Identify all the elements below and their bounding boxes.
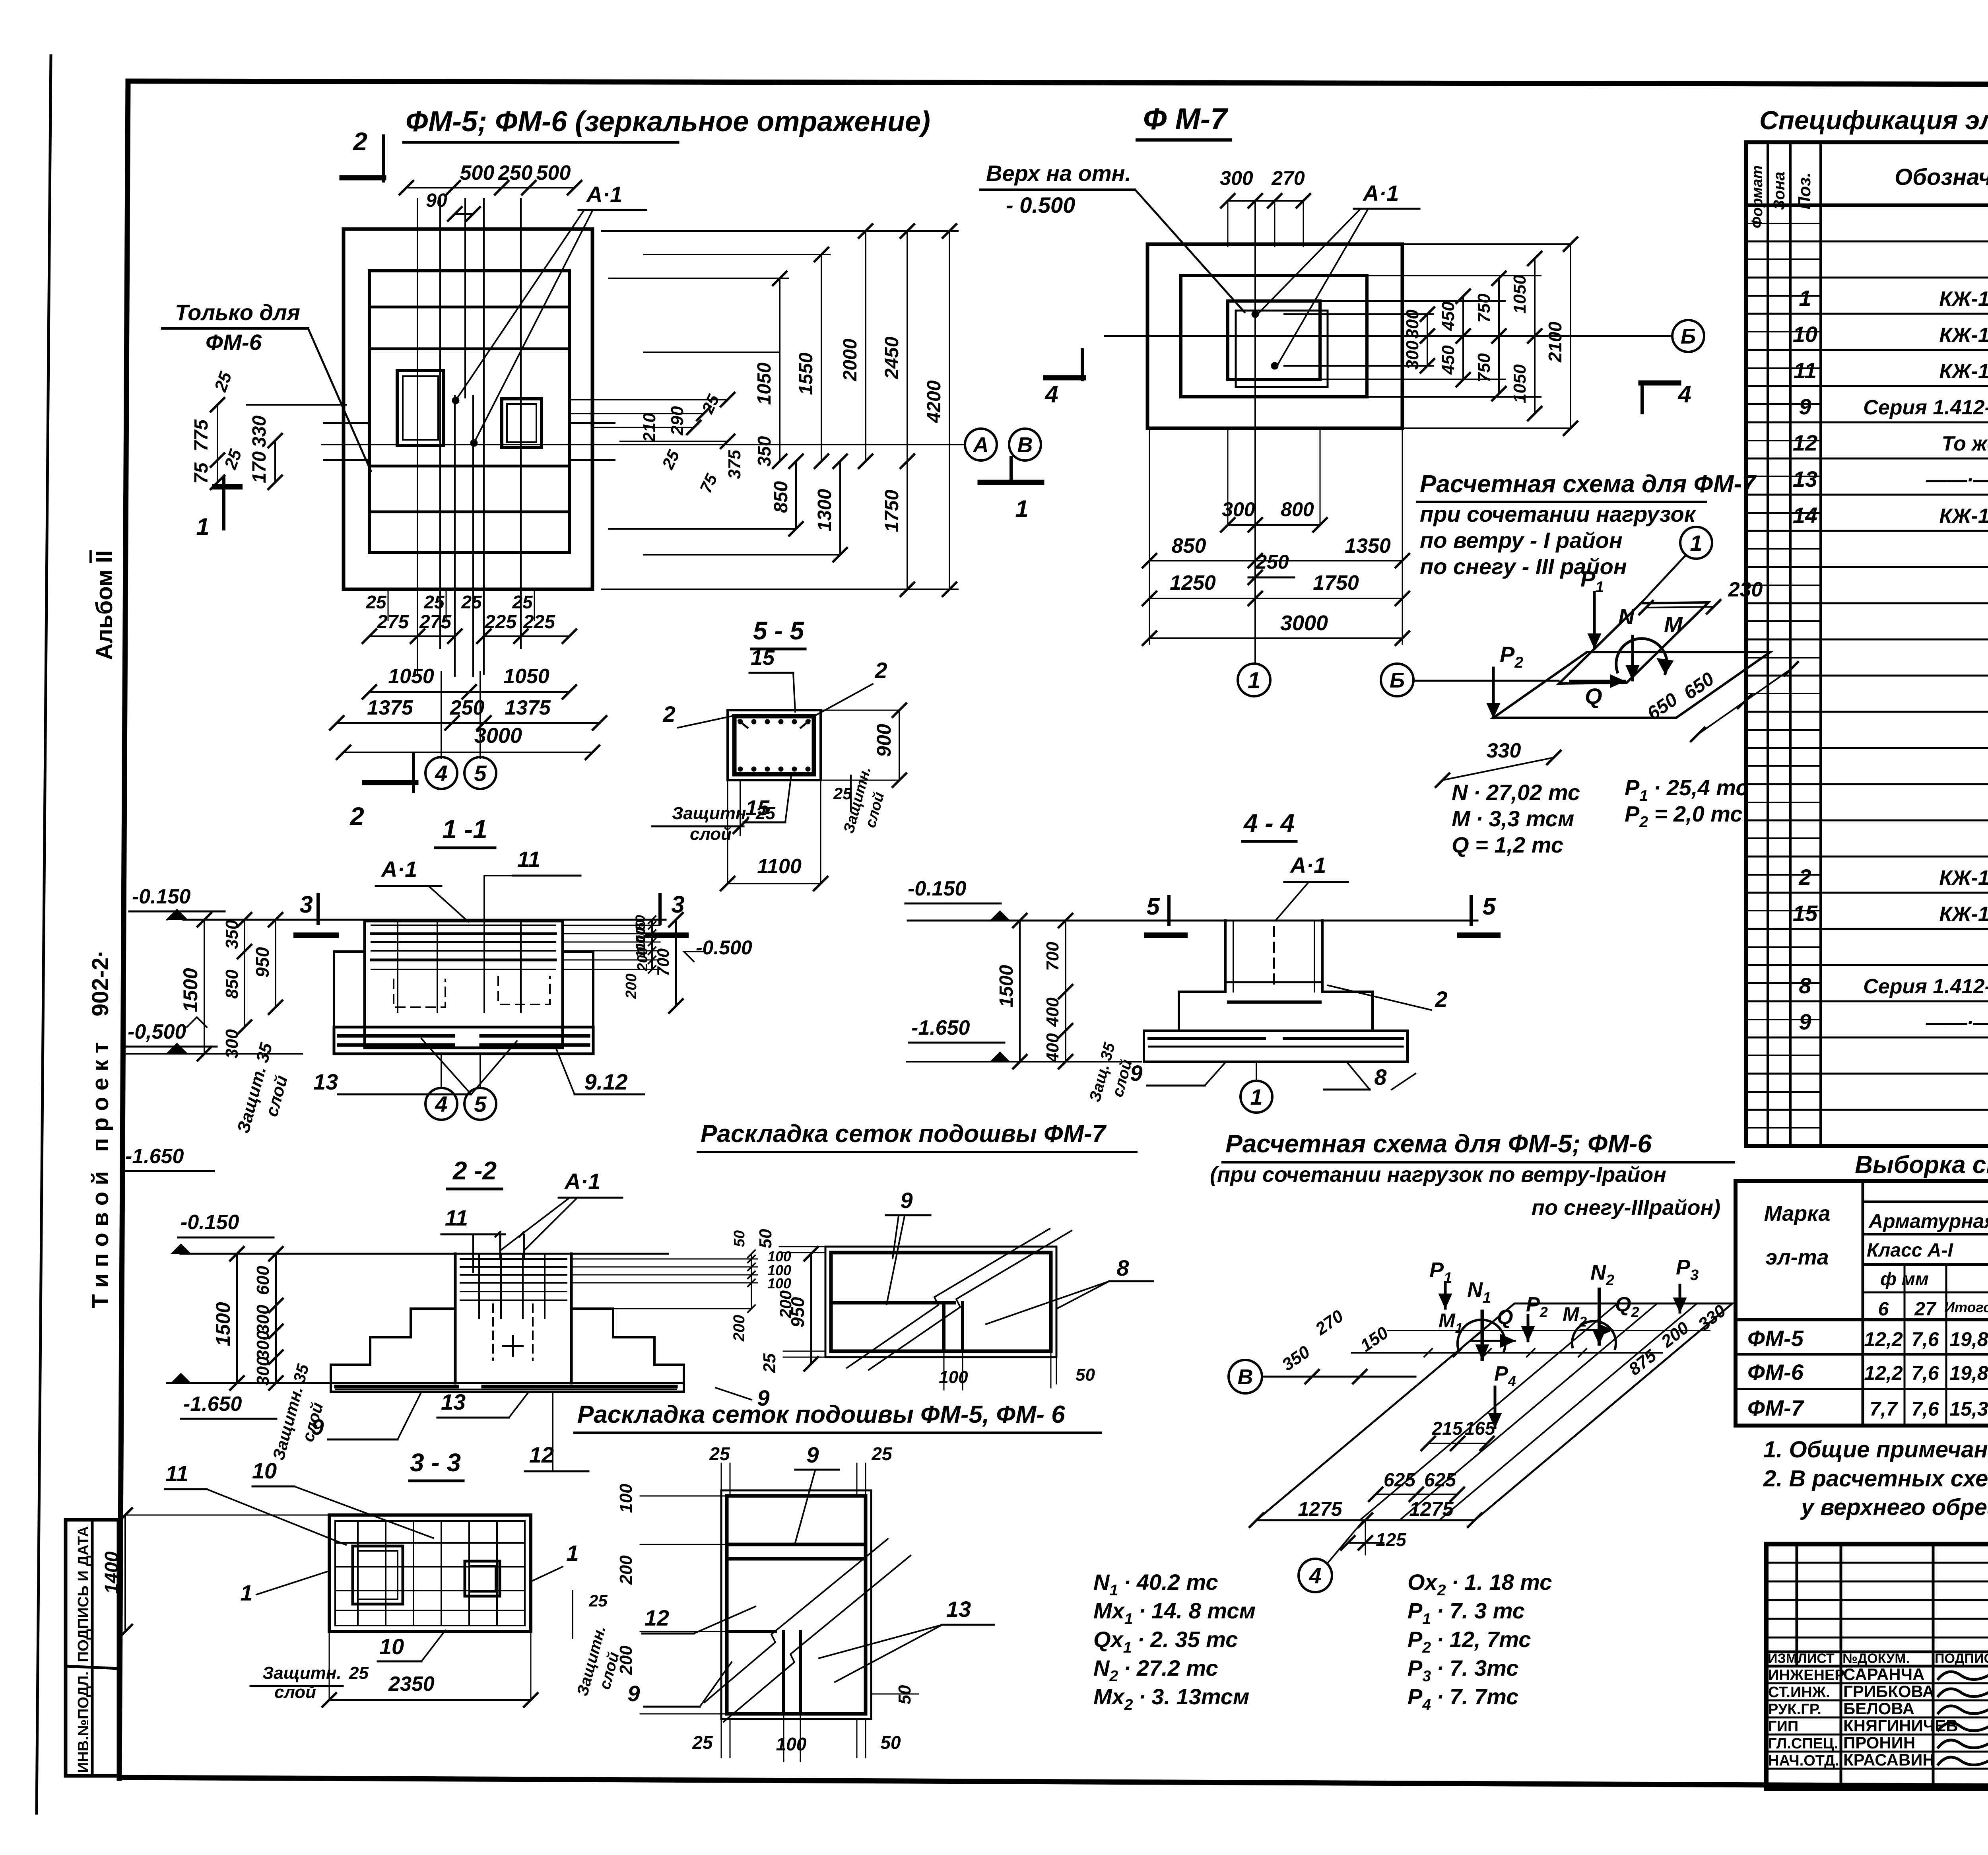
svg-text:САРАНЧА: САРАНЧА xyxy=(1843,1665,1924,1684)
svg-text:10: 10 xyxy=(1793,322,1817,347)
svg-text:1050: 1050 xyxy=(754,362,775,405)
svg-text:-1.650: -1.650 xyxy=(183,1393,242,1416)
svg-text:3: 3 xyxy=(671,891,684,918)
svg-text:14: 14 xyxy=(1793,503,1817,528)
svg-text:200: 200 xyxy=(623,973,640,999)
svg-text:13: 13 xyxy=(313,1069,338,1094)
svg-text:при сочетании нагрузок: при сочетании нагрузок xyxy=(1420,501,1697,526)
svg-text:9: 9 xyxy=(1799,394,1811,419)
label A-1 with leaders xyxy=(452,182,646,447)
svg-text:7,6: 7,6 xyxy=(1911,1328,1939,1350)
svg-text:ФМ-5; ФМ-6 (зеркальное отражен: ФМ-5; ФМ-6 (зеркальное отражение) xyxy=(406,106,930,138)
title raschetnaya shema dlya FM-7 xyxy=(1417,470,1757,579)
svg-text:5: 5 xyxy=(1146,893,1160,920)
svg-text:ПОДПИСЬ И ДАТА: ПОДПИСЬ И ДАТА xyxy=(75,1526,92,1662)
svg-text:-0,500: -0,500 xyxy=(128,1020,186,1043)
svg-text:5: 5 xyxy=(1482,893,1496,920)
svg-text:КЖ-13: КЖ-13 xyxy=(1939,324,1988,347)
section marks 3 xyxy=(296,891,686,935)
svg-text:1100: 1100 xyxy=(757,855,802,878)
svg-text:15: 15 xyxy=(1793,901,1818,926)
section 5-5 title xyxy=(751,616,805,649)
svg-text:Qх1 ∙ 2. 35 тс: Qх1 ∙ 2. 35 тс xyxy=(1093,1627,1238,1656)
section 1-1 left dims xyxy=(122,885,302,1171)
svg-text:13: 13 xyxy=(1793,466,1817,491)
svg-text:3 - 3: 3 - 3 xyxy=(410,1448,461,1477)
schema FM-5/6 base plate parallelogram xyxy=(1256,1303,1732,1520)
section 1-1 grid circles 4 5 xyxy=(425,1054,496,1120)
svg-text:900: 900 xyxy=(873,724,895,757)
section 2-2 title xyxy=(447,1156,502,1189)
svg-text:4: 4 xyxy=(1044,381,1058,408)
svg-text:Мх2 ∙ 3. 13тсм: Мх2 ∙ 3. 13тсм xyxy=(1093,1684,1249,1713)
svg-text:1: 1 xyxy=(1015,495,1028,522)
svg-text:100: 100 xyxy=(767,1275,791,1292)
title raskladka setok FM-7 xyxy=(698,1120,1136,1152)
schema FM-5/6 upper dim lines xyxy=(1305,1331,1710,1383)
svg-text:1: 1 xyxy=(1690,530,1702,556)
svg-text:800: 800 xyxy=(1281,498,1314,521)
lower-left stamp box xyxy=(66,1520,118,1776)
section 5-5 column square xyxy=(728,710,821,780)
section 3-3 labels xyxy=(165,1458,579,1661)
svg-text:3: 3 xyxy=(299,891,313,918)
svg-text:Верх на отн.: Верх на отн. xyxy=(986,161,1131,186)
section 1-1 foundation body xyxy=(334,921,593,1054)
svg-text:Ох2 ∙ 1. 18 тс: Ох2 ∙ 1. 18 тс xyxy=(1408,1569,1552,1599)
svg-text:11: 11 xyxy=(445,1205,468,1230)
svg-text:КЖ-13: КЖ-13 xyxy=(1939,903,1988,926)
svg-text:1: 1 xyxy=(566,1540,579,1566)
mesh FM-7 rectangle xyxy=(825,1247,1056,1357)
svg-text:600: 600 xyxy=(253,1266,273,1295)
svg-text:- 0.500: - 0.500 xyxy=(1006,192,1075,218)
title FM-7 xyxy=(1137,102,1231,140)
svg-text:Класс А-I: Класс А-I xyxy=(1867,1240,1953,1261)
svg-text:2350: 2350 xyxy=(388,1672,435,1696)
svg-text:350: 350 xyxy=(222,920,242,949)
section 2-2 stepped foundation outline xyxy=(331,1254,684,1392)
svg-text:275: 275 xyxy=(377,612,409,633)
section 4-4 slab mesh bars xyxy=(1149,1039,1403,1047)
svg-text:11: 11 xyxy=(1794,358,1817,383)
svg-text:-0.150: -0.150 xyxy=(181,1211,239,1234)
svg-text:Спецификация элементов монолит: Спецификация элементов монолитной констр… xyxy=(1759,105,1988,135)
svg-text:-1.650: -1.650 xyxy=(125,1145,184,1168)
plan FM-7 column rectangle xyxy=(1228,301,1328,387)
plan FM-7 anchor dots and A-1 label xyxy=(1252,181,1419,369)
section 4-4 stepped outline xyxy=(1144,921,1408,1062)
svg-text:625: 625 xyxy=(1384,1470,1416,1491)
section 5-5 dim 1100 xyxy=(721,780,827,890)
svg-text:330: 330 xyxy=(1487,739,1521,762)
svg-text:ФМ-5: ФМ-5 xyxy=(1747,1326,1804,1351)
svg-text:1400: 1400 xyxy=(101,1551,122,1594)
svg-text:1: 1 xyxy=(240,1580,252,1605)
svg-text:КНЯГИНИЧЕВ: КНЯГИНИЧЕВ xyxy=(1843,1716,1958,1735)
svg-text:Мх1 ∙ 14. 8 тсм: Мх1 ∙ 14. 8 тсм xyxy=(1093,1598,1256,1628)
title FM-5 FM-6 mirror xyxy=(404,106,930,142)
section 1-1 protective layer note xyxy=(233,1041,291,1135)
svg-text:1. Общие примечания см. на: 1. Общие примечания см. на листе КЖ-6 xyxy=(1763,1437,1988,1463)
svg-text:300: 300 xyxy=(253,1331,273,1360)
plan FM-7 right nested dims xyxy=(1284,237,1577,435)
schema FM-7 dim 230 xyxy=(1639,578,1763,614)
svg-text:450: 450 xyxy=(1439,345,1458,375)
dimension 90 xyxy=(426,190,480,221)
schema FM-5/6 rotated dims 875 200 330 xyxy=(1625,1301,1730,1379)
svg-text:Серия 1.412-1 Вып. II: Серия 1.412-1 Вып. II xyxy=(1863,975,1988,998)
plan FM-7 top dims 300 270 xyxy=(1220,167,1310,247)
schema FM-7 bottom plate xyxy=(1493,652,1770,718)
svg-text:1375: 1375 xyxy=(367,696,414,719)
svg-text:у верхнего обреза фундаментов.: у верхнего обреза фундаментов. xyxy=(1800,1494,1988,1520)
plan FM-7 middle rectangle xyxy=(1181,276,1367,397)
plan FM-7 dims 850 1350 xyxy=(1143,534,1409,567)
svg-text:750: 750 xyxy=(1474,353,1494,383)
svg-text:Раскладка сеток подошвы ФМ-5,: Раскладка сеток подошвы ФМ-5, ФМ- 6 xyxy=(577,1401,1065,1428)
schema FM-7 dims 650 650 xyxy=(1643,662,1798,741)
svg-text:1750: 1750 xyxy=(881,489,903,532)
svg-text:125: 125 xyxy=(1376,1529,1407,1550)
svg-text:НАЧ.ОТД.: НАЧ.ОТД. xyxy=(1768,1752,1839,1769)
svg-text:1250: 1250 xyxy=(1170,571,1216,594)
svg-text:7,6: 7,6 xyxy=(1911,1398,1939,1420)
mesh FM-5/6 rectangle xyxy=(721,1490,871,1719)
svg-text:КЖ-13: КЖ-13 xyxy=(1939,360,1988,383)
svg-text:15,3: 15,3 xyxy=(1949,1398,1988,1420)
svg-text:N ∙ 27,02 тс: N ∙ 27,02 тс xyxy=(1452,780,1580,805)
svg-text:850: 850 xyxy=(771,481,792,513)
schema FM-5/6 dims 625 625 xyxy=(1369,1470,1464,1501)
svg-text:1050: 1050 xyxy=(1510,275,1530,314)
svg-text:Только для: Только для xyxy=(175,300,300,325)
svg-text:1050: 1050 xyxy=(503,665,549,688)
svg-text:215: 215 xyxy=(1432,1418,1463,1439)
svg-text:ПОДПИСЬ: ПОДПИСЬ xyxy=(1935,1651,1988,1666)
steel table data rows xyxy=(1747,1326,1988,1420)
svg-text:-0.500: -0.500 xyxy=(696,936,752,959)
svg-text:500: 500 xyxy=(460,161,495,185)
note Verh na otm -0.500 xyxy=(980,161,1244,312)
section 3-3 mesh grid xyxy=(335,1521,525,1626)
svg-text:То же: То же xyxy=(1941,432,1988,455)
svg-text:25: 25 xyxy=(423,592,445,612)
svg-text:1375: 1375 xyxy=(505,696,551,719)
section 5-5 label 2 right xyxy=(811,658,887,718)
section 1-1 rebar cage xyxy=(371,922,555,1012)
plan FM-5/6 center axis xyxy=(322,444,965,445)
svg-text:6: 6 xyxy=(1878,1299,1889,1320)
section 4-4 marks 5 xyxy=(1146,893,1498,935)
svg-text:ИНВ.№ПОДЛ.: ИНВ.№ПОДЛ. xyxy=(75,1671,92,1773)
svg-text:КЖ-13: КЖ-13 xyxy=(1939,505,1988,528)
svg-text:50: 50 xyxy=(756,1229,775,1248)
svg-text:7,6: 7,6 xyxy=(1911,1362,1939,1384)
section 1-1 label 9.12 xyxy=(557,1050,644,1094)
svg-text:850: 850 xyxy=(222,969,242,999)
svg-text:12: 12 xyxy=(1793,430,1817,455)
svg-text:950: 950 xyxy=(252,947,273,977)
schema FM-5/6 forces xyxy=(1429,1255,1699,1428)
svg-text:10: 10 xyxy=(252,1458,277,1483)
section 5-5 label 15 bottom xyxy=(744,775,791,822)
svg-text:М: М xyxy=(1664,612,1683,637)
grid circles 4 and 5 xyxy=(425,672,496,789)
section 2-2 right dim cluster xyxy=(571,1230,818,1371)
plan FM-7 center axes xyxy=(1105,201,1670,664)
svg-text:11: 11 xyxy=(165,1461,188,1486)
svg-text:Q: Q xyxy=(1585,684,1602,709)
svg-text:эл-та: эл-та xyxy=(1765,1245,1829,1269)
svg-text:4 - 4: 4 - 4 xyxy=(1243,809,1295,837)
svg-text:100: 100 xyxy=(616,1484,636,1513)
schema FM-7 force P1 xyxy=(1580,566,1604,648)
svg-text:9.12: 9.12 xyxy=(584,1069,628,1094)
svg-text:Серия 1.412-1 Вып. II: Серия 1.412-1 Вып. II xyxy=(1863,396,1988,419)
svg-text:100: 100 xyxy=(939,1367,968,1387)
section 1-1 ground level line xyxy=(183,919,666,921)
svg-text:300: 300 xyxy=(1220,167,1253,189)
svg-text:2: 2 xyxy=(1435,987,1447,1012)
bottom dims 1375 250 1375 xyxy=(330,696,606,730)
svg-text:25: 25 xyxy=(512,592,533,612)
dimension 500 250 500 top xyxy=(400,161,581,194)
schema FM-7 dim 330 xyxy=(1436,739,1561,787)
svg-text:700: 700 xyxy=(654,948,672,976)
section 5-5 label 15 top xyxy=(749,646,795,712)
svg-text:5: 5 xyxy=(474,761,487,786)
svg-text:А·1: А·1 xyxy=(381,857,417,882)
svg-text:Т и п о в о й п р о е к т: Т и п о в о й п р о е к т 902-2· xyxy=(87,950,113,1308)
svg-text:2: 2 xyxy=(349,802,364,831)
svg-text:1500: 1500 xyxy=(212,1302,234,1346)
svg-text:250: 250 xyxy=(450,696,485,719)
svg-text:2: 2 xyxy=(662,701,675,726)
plan FM-5/6 pier side lines xyxy=(324,423,614,460)
svg-text:170: 170 xyxy=(249,451,270,483)
axis circles A and B xyxy=(965,429,1041,460)
schema FM-5/6 dims 1275 1275 xyxy=(1250,1498,1481,1527)
svg-text:ГРИБКОВА: ГРИБКОВА xyxy=(1843,1682,1934,1701)
svg-text:1: 1 xyxy=(196,513,209,540)
plan FM-5/6 right anchor box xyxy=(502,399,542,447)
section 2-2 label A-1 xyxy=(500,1169,622,1251)
svg-text:270: 270 xyxy=(1271,167,1305,189)
svg-text:13: 13 xyxy=(946,1597,971,1622)
svg-text:19,8: 19,8 xyxy=(1949,1328,1988,1350)
svg-text:775: 775 xyxy=(191,419,212,451)
svg-text:КРАСАВИН: КРАСАВИН xyxy=(1843,1750,1935,1769)
svg-text:200: 200 xyxy=(616,1555,636,1585)
svg-text:300: 300 xyxy=(1403,340,1422,370)
svg-text:1500: 1500 xyxy=(996,965,1017,1007)
svg-text:БЕЛОВА: БЕЛОВА xyxy=(1843,1699,1914,1718)
svg-text:10: 10 xyxy=(379,1634,404,1659)
schema FM-7 force Q xyxy=(1571,675,1625,709)
svg-text:2 -2: 2 -2 xyxy=(452,1156,497,1185)
svg-text:300: 300 xyxy=(1222,498,1255,521)
section 2-2 ground level line xyxy=(181,1253,668,1255)
schema FM-5/6 dims 215 165 xyxy=(1421,1418,1496,1450)
svg-text:А·1: А·1 xyxy=(1362,181,1399,206)
svg-text:5 - 5: 5 - 5 xyxy=(753,616,804,645)
svg-text:Защитн.: Защитн. xyxy=(262,1663,342,1683)
section 2-2 protective layer note xyxy=(269,1362,326,1462)
svg-text:9: 9 xyxy=(627,1681,640,1706)
svg-text:625: 625 xyxy=(1424,1470,1456,1491)
section 2-2 left dims xyxy=(167,1211,330,1419)
svg-text:200: 200 xyxy=(634,947,650,971)
svg-text:9: 9 xyxy=(900,1188,912,1213)
svg-text:Ф М-7: Ф М-7 xyxy=(1143,102,1229,136)
plan FM-7 dim 3000 xyxy=(1143,611,1409,645)
title block signatures xyxy=(1938,1672,1988,1765)
section 1-1 title xyxy=(435,814,495,848)
axis circle B right xyxy=(1672,320,1704,352)
svg-text:Формат: Формат xyxy=(1749,165,1766,229)
svg-text:25: 25 xyxy=(588,1591,608,1610)
section 2-2 labels 9 13 12 xyxy=(311,1385,769,1471)
section 5-5 zashitn sloy left xyxy=(652,780,775,844)
svg-text:250: 250 xyxy=(498,161,533,185)
svg-text:90: 90 xyxy=(426,190,447,211)
svg-text:Зона: Зона xyxy=(1771,172,1788,210)
svg-text:-1.650: -1.650 xyxy=(911,1016,970,1039)
section mark 2 top xyxy=(342,127,384,181)
svg-text:Q = 1,2 тс: Q = 1,2 тс xyxy=(1452,832,1563,857)
plan FM-5/6 vertical grid/extension lines xyxy=(417,199,521,676)
svg-text:400: 400 xyxy=(1043,1033,1062,1063)
svg-text:350: 350 xyxy=(754,436,775,466)
svg-text:9: 9 xyxy=(311,1414,324,1439)
svg-text:2. В расчетных схемах даны но: 2. В расчетных схемах даны нормативные н… xyxy=(1763,1466,1988,1492)
section 5-5 dim 900 xyxy=(821,703,906,787)
svg-text:(при сочетании нагрузок по ве: (при сочетании нагрузок по ветру-Iрайон xyxy=(1210,1163,1666,1187)
svg-text:ФМ-7: ФМ-7 xyxy=(1747,1395,1805,1420)
svg-text:50: 50 xyxy=(731,1230,748,1247)
svg-text:25: 25 xyxy=(461,592,482,612)
svg-text:12: 12 xyxy=(529,1442,554,1467)
schema FM-7 force P2 xyxy=(1487,642,1523,718)
section mark 1 below axis circles xyxy=(980,457,1042,522)
title raschetnaya shema FM-5 FM-6 xyxy=(1210,1129,1734,1220)
svg-text:ГЛ.СПЕЦ.: ГЛ.СПЕЦ. xyxy=(1768,1735,1838,1752)
svg-text:ФМ-6: ФМ-6 xyxy=(1747,1360,1804,1385)
svg-text:400: 400 xyxy=(1043,997,1062,1027)
section 5-5 zashitn sloy right xyxy=(833,765,887,835)
svg-text:1: 1 xyxy=(1250,1084,1262,1109)
axis circle B of load schema xyxy=(1381,664,1559,696)
svg-text:15: 15 xyxy=(751,646,775,670)
section 2-2 slab mesh bars xyxy=(336,1387,676,1389)
svg-text:50: 50 xyxy=(895,1685,914,1704)
plan FM-7 outer rectangle xyxy=(1147,244,1402,428)
svg-text:2100: 2100 xyxy=(1545,321,1565,363)
svg-text:850: 850 xyxy=(1172,534,1206,557)
section 4-4 labels 9 1 8 2 xyxy=(1130,985,1447,1113)
svg-text:12,2: 12,2 xyxy=(1864,1328,1903,1350)
svg-text:4200: 4200 xyxy=(924,380,945,423)
svg-text:Альбом II: Альбом II xyxy=(91,550,117,660)
svg-text:290: 290 xyxy=(668,406,687,436)
schema FM-7 detail circle 1 with leader xyxy=(1641,527,1712,603)
svg-text:——∙——: ——∙—— xyxy=(1926,468,1988,491)
steel table grid xyxy=(1736,1181,1988,1426)
svg-text:1275: 1275 xyxy=(1409,1498,1454,1520)
svg-text:ПРОНИН: ПРОНИН xyxy=(1843,1733,1915,1752)
svg-text:М ∙ 3,3 тсм: М ∙ 3,3 тсм xyxy=(1452,806,1574,831)
svg-text:500: 500 xyxy=(536,161,571,185)
section 4-4 title xyxy=(1242,809,1296,841)
svg-text:2: 2 xyxy=(353,127,367,156)
plan FM-5/6 inner step rectangle xyxy=(369,271,569,552)
svg-text:4: 4 xyxy=(435,761,447,786)
svg-text:3000: 3000 xyxy=(474,724,522,748)
svg-text:А·1: А·1 xyxy=(564,1169,600,1194)
section 4-4 label A-1 xyxy=(1276,853,1348,921)
section 4-4 left dims xyxy=(905,877,1141,1068)
svg-text:330: 330 xyxy=(249,416,270,447)
bottom dims 275 275 225 225 xyxy=(363,612,576,643)
section marks 4 flanking FM-7 xyxy=(1044,350,1691,413)
svg-text:1300: 1300 xyxy=(814,489,835,531)
schema FM-5/6 circle 4 xyxy=(1299,1520,1364,1592)
svg-text:А: А xyxy=(973,433,989,457)
section 1-1 label 11 xyxy=(484,847,580,923)
svg-text:——∙——: ——∙—— xyxy=(1926,1011,1988,1034)
svg-text:25: 25 xyxy=(349,1663,369,1683)
right nested dimension block xyxy=(602,224,958,596)
svg-text:27: 27 xyxy=(1914,1299,1937,1320)
section 1-1 right dim cluster xyxy=(563,913,752,1013)
svg-text:№ДОКУМ.: №ДОКУМ. xyxy=(1842,1651,1910,1666)
schema FM-5/6 axis circle V xyxy=(1229,1360,1415,1393)
svg-text:50: 50 xyxy=(880,1732,901,1753)
svg-text:1050: 1050 xyxy=(388,665,434,688)
svg-text:Расчетная схема для ФМ-7: Расчетная схема для ФМ-7 xyxy=(1420,470,1757,498)
mesh FM-5/6 break diagonals xyxy=(705,1539,911,1722)
svg-text:1275: 1275 xyxy=(1298,1498,1342,1520)
svg-text:750: 750 xyxy=(1474,293,1494,323)
svg-text:А·1: А·1 xyxy=(586,182,622,207)
svg-text:Марка: Марка xyxy=(1764,1202,1831,1226)
svg-text:450: 450 xyxy=(1439,301,1458,331)
svg-text:Q: Q xyxy=(1497,1306,1513,1329)
plan FM-7 dim 250 xyxy=(1248,551,1294,584)
svg-text:8: 8 xyxy=(1374,1064,1387,1090)
svg-text:4: 4 xyxy=(1309,1563,1321,1588)
svg-text:Обозначение: Обозначение xyxy=(1895,164,1988,190)
steel table header texts xyxy=(1764,1179,1988,1320)
svg-text:Б: Б xyxy=(1390,668,1405,692)
schema FM-7 moment M xyxy=(1616,612,1683,674)
plan FM-5/6 mesh bars xyxy=(369,307,569,512)
svg-text:СТ.ИНЖ.: СТ.ИНЖ. xyxy=(1768,1684,1830,1701)
svg-text:Защитн. 25: Защитн. 25 xyxy=(672,804,775,823)
svg-text:2: 2 xyxy=(874,658,887,683)
svg-text:300: 300 xyxy=(253,1356,273,1386)
svg-text:1500: 1500 xyxy=(179,968,202,1012)
section 4-4 protective layer note xyxy=(1086,1041,1136,1104)
spec table grid xyxy=(1746,142,1988,1146)
svg-text:25: 25 xyxy=(709,1443,730,1464)
svg-text:12: 12 xyxy=(645,1605,669,1630)
schema FM-7 load values xyxy=(1452,775,1748,857)
svg-text:75: 75 xyxy=(191,462,212,484)
svg-text:по снегу-IIIрайон): по снегу-IIIрайон) xyxy=(1532,1196,1720,1220)
svg-text:КЖ-13: КЖ-13 xyxy=(1939,866,1988,890)
